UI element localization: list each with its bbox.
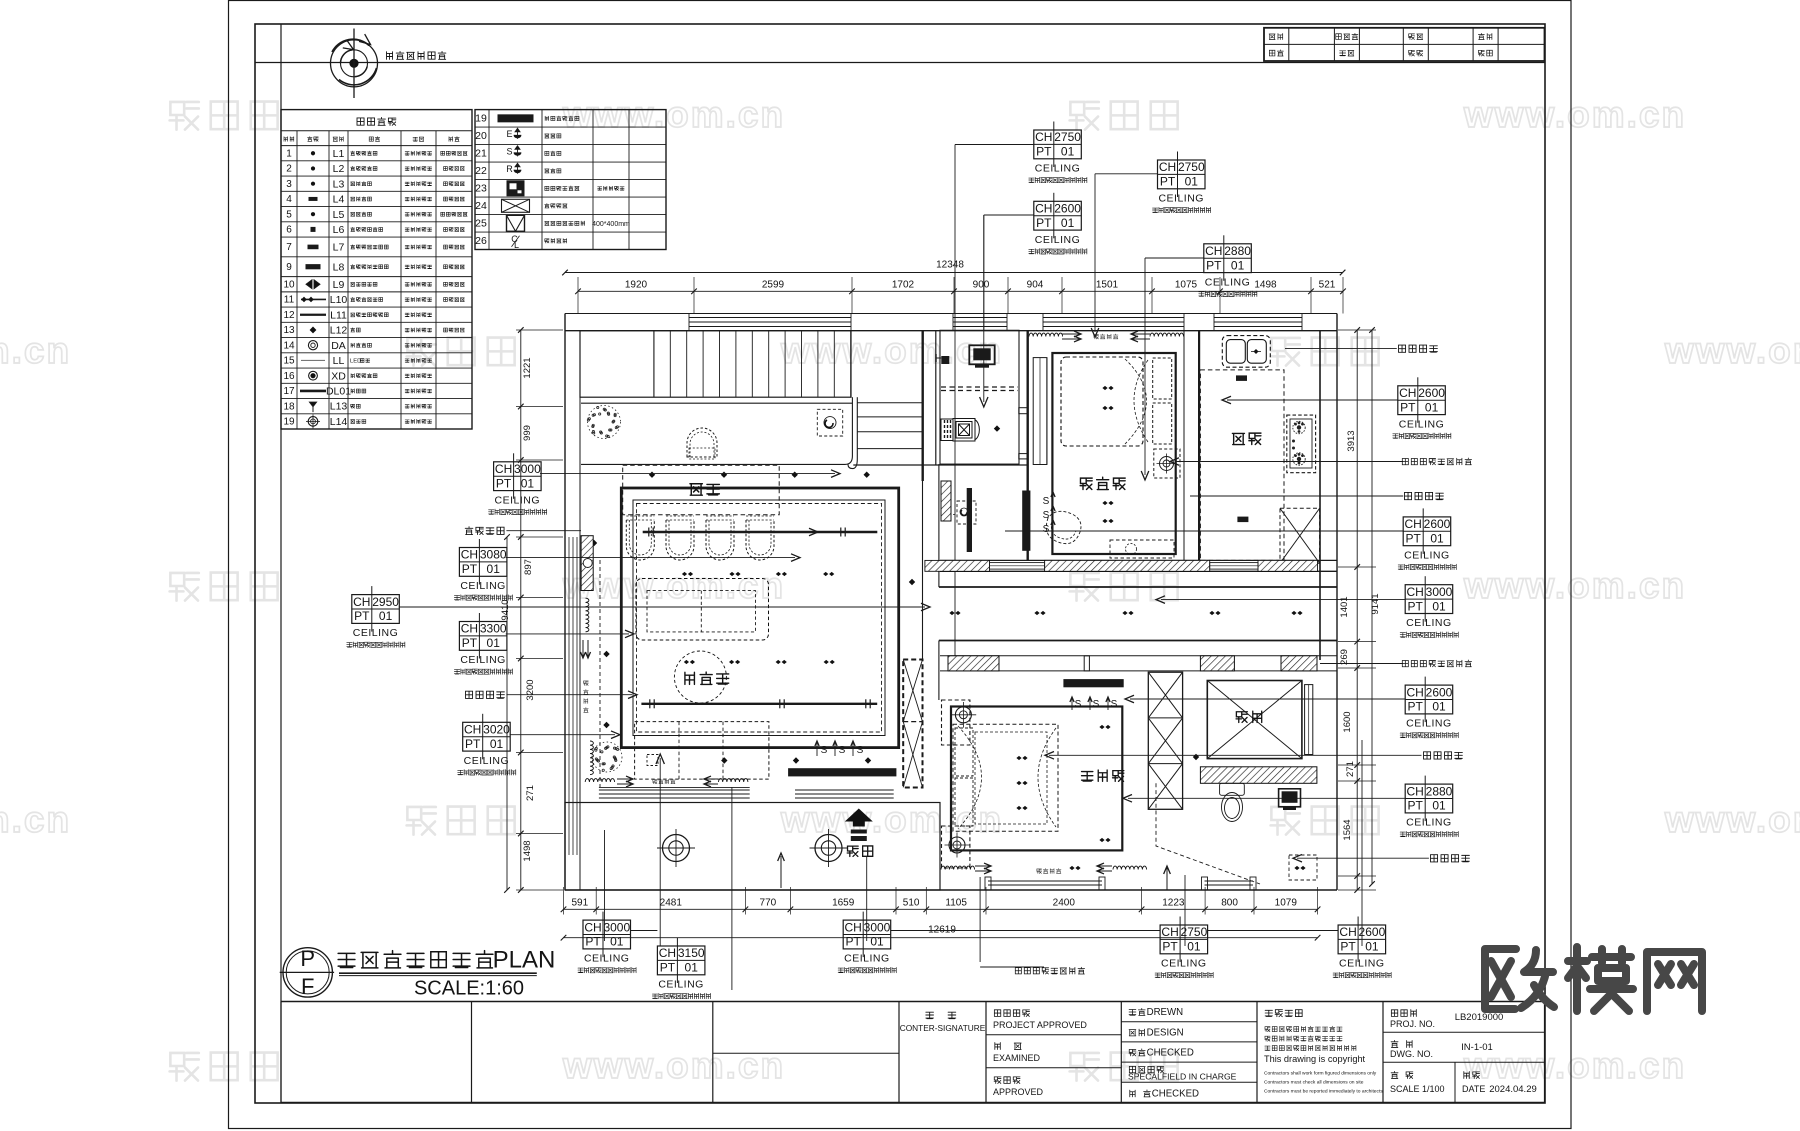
project number cells [1383,1031,1545,1033]
svg-text:01: 01 [1430,532,1444,546]
svg-text:2750: 2750 [1054,130,1081,144]
toilet bottom right [1220,783,1245,821]
svg-text:25: 25 [475,218,487,230]
svg-text:2880: 2880 [1224,244,1251,258]
svg-text:15: 15 [283,356,295,367]
empty cell divider [713,1052,899,1054]
svg-text:CH: CH [1407,585,1424,599]
svg-text:01: 01 [1061,145,1075,159]
svg-text:L9: L9 [333,279,345,291]
bathroom leader lines [954,145,956,657]
svg-text:01: 01 [1185,175,1199,189]
svg-text:L8: L8 [333,261,345,273]
callout CH3080 [459,548,507,577]
bedroom2 black bar [1022,491,1030,551]
svg-text:01: 01 [610,935,624,949]
toilet dashed partition [1156,783,1260,884]
plan outer boundary top [565,313,1337,315]
svg-text:PT: PT [846,935,862,949]
svg-text:PROJ. NO.: PROJ. NO. [1390,1019,1435,1029]
svg-text:L12: L12 [330,325,348,337]
room label parents room [1082,772,1093,782]
ceiling legend table [281,110,472,429]
svg-text:S: S [506,146,512,156]
tea counter band [581,402,852,404]
svg-text:S: S [1043,510,1050,521]
big dark OM watermark [1485,947,1702,1011]
svg-text:SCALE 1/100: SCALE 1/100 [1390,1084,1445,1094]
svg-text:L14: L14 [330,416,348,428]
svg-text:1564: 1564 [1342,819,1353,840]
svg-text:PT: PT [465,737,481,751]
right rooms wall band [940,559,1337,561]
svg-text:L7: L7 [333,242,345,254]
svg-text:CH: CH [1035,202,1052,216]
kitchen walls [1198,331,1200,563]
room label small bedroom [1080,478,1092,489]
top dimension total line [565,272,1343,274]
svg-text:01: 01 [487,636,501,650]
title block [280,1002,282,1103]
leader horizontals from left [506,530,581,532]
svg-text:9410: 9410 [500,599,511,620]
AC vent black bar leisure [788,768,896,776]
sofa dashed top leisure [636,579,769,641]
svg-text:2600: 2600 [1426,685,1453,699]
svg-text:21: 21 [475,148,487,160]
svg-text:3150: 3150 [678,946,705,960]
svg-text:01: 01 [1425,400,1439,414]
room label teahouse [690,484,702,495]
svg-text:1498: 1498 [522,840,533,861]
svg-text:CH: CH [353,595,370,609]
svg-text:1600: 1600 [1342,711,1353,732]
svg-text:CH: CH [1339,925,1356,939]
svg-text:www.om.cn: www.om.cn [562,94,785,135]
svg-text:1920: 1920 [625,280,648,291]
svg-text:CH: CH [495,462,512,476]
svg-text:CH: CH [1405,517,1422,531]
svg-text:CH: CH [845,920,862,934]
svg-text:PLAN: PLAN [493,947,556,974]
callout CH2600 [1338,925,1386,954]
svg-text:19: 19 [283,417,295,428]
elevator [1207,681,1302,759]
svg-text:www.om.cn: www.om.cn [1664,330,1800,371]
svg-text:www.om.cn: www.om.cn [1463,1045,1686,1086]
svg-text:3080: 3080 [480,548,507,562]
left dashed strip [599,560,601,787]
svg-text:20: 20 [475,130,487,142]
svg-text:PT: PT [1160,175,1176,189]
svg-text:LB2019000: LB2019000 [1455,1012,1504,1023]
bedroom2 walls (xiaochuangfang) [1052,353,1175,554]
svg-text:3200: 3200 [525,679,536,700]
kitchen stove [1287,415,1316,473]
svg-text:9141: 9141 [1370,593,1381,614]
tea table thick line [643,531,878,533]
plan top wall [565,330,1337,332]
parents AC vent black [1063,679,1123,687]
svg-text:CONTER-SIGNATURE: CONTER-SIGNATURE [900,1023,986,1033]
svg-text:S: S [821,745,828,756]
legend table rows 19-26 [475,110,666,250]
bedroom2 bed dashed [1061,357,1143,446]
svg-text:PROJECT APPROVED: PROJECT APPROVED [993,1020,1087,1030]
svg-text:2750: 2750 [1178,160,1205,174]
svg-text:01: 01 [1432,700,1446,714]
svg-text:2024.04.29: 2024.04.29 [1489,1084,1537,1095]
svg-text:2599: 2599 [762,280,785,291]
parents lamps [1016,756,1027,760]
kitchen ceiling dashed [1200,370,1284,561]
plant bottom left [592,742,622,772]
svg-text:CEILING: CEILING [1161,958,1207,970]
svg-text:CH: CH [461,548,478,562]
svg-text:22: 22 [475,165,487,177]
svg-text:CHECKED: CHECKED [1147,1048,1194,1059]
svg-text:L1: L1 [333,148,345,160]
svg-text:2400: 2400 [1053,898,1076,909]
svg-text:01: 01 [1061,216,1075,230]
svg-text:www.om.cn: www.om.cn [1463,94,1686,135]
top window bands [689,317,851,319]
svg-text:Contractors must check all dim: Contractors must check all dimensions on… [1264,1080,1364,1086]
svg-text:271: 271 [1345,761,1356,777]
svg-text:CEILING: CEILING [1406,617,1452,629]
svg-text:R: R [506,164,513,174]
sliding door threshold lines [599,789,750,791]
bathroom toilet [941,419,979,442]
left dimension lines [520,330,522,890]
X column between parents and elevator [1148,672,1182,809]
svg-text:LED: LED [350,358,361,364]
svg-text:9: 9 [286,262,292,273]
svg-text:PT: PT [1206,258,1222,272]
bedroom2 top curtain coils [1029,333,1184,336]
svg-text:F: F [301,974,314,999]
corridor X column A [903,660,922,788]
svg-text:6: 6 [286,225,292,236]
svg-text:13: 13 [283,325,295,336]
svg-text:521: 521 [1319,280,1336,291]
black bar pier [967,488,972,552]
svg-text:01: 01 [1187,940,1201,954]
svg-text:19: 19 [475,113,487,125]
svg-text:26: 26 [475,235,487,247]
bedroom2 wardrobe [1033,358,1047,465]
callout CH3300 [459,622,507,651]
svg-text:12619: 12619 [928,925,956,936]
svg-text:PT: PT [496,476,512,490]
bathroom room box [940,330,1019,464]
svg-text:897: 897 [523,559,534,575]
plan title text [338,953,355,967]
svg-text:L11: L11 [330,309,347,321]
svg-text:CH: CH [1399,386,1416,400]
leader verticals from top callouts [983,215,985,330]
plan left wall [564,314,566,891]
svg-text:269: 269 [1339,649,1350,665]
svg-text:CEILING: CEILING [1399,418,1445,430]
drawn column [1121,1021,1257,1023]
svg-text:2750: 2750 [1181,925,1208,939]
tea counter chair [687,428,717,457]
pendant lamp dashed box [817,409,842,436]
callout CH3000 [1405,585,1453,614]
callout CH2600 [1398,386,1446,415]
room label kitchen [1232,433,1244,444]
svg-text:CEILING: CEILING [1406,817,1452,829]
svg-text:L13: L13 [330,401,348,413]
svg-text:800: 800 [1221,898,1238,909]
svg-text:01: 01 [1432,799,1446,813]
S symbols right bottom of leisure [816,742,818,756]
corridor bottom band [940,655,1337,657]
svg-text:3000: 3000 [1426,585,1453,599]
svg-text:999: 999 [522,425,533,441]
svg-text:2880: 2880 [1426,784,1453,798]
svg-text:www.om.cn: www.om.cn [0,799,71,840]
svg-text:12: 12 [283,310,295,321]
svg-text:L2: L2 [333,163,345,175]
svg-text:CH: CH [1407,784,1424,798]
sheet usage text [387,52,393,60]
top dimension chain [578,290,1343,292]
svg-text:SCALE:1:60: SCALE:1:60 [414,978,524,1000]
svg-text:S: S [1093,699,1100,710]
kitchen vents black [1236,375,1247,381]
svg-text:CH: CH [1407,685,1424,699]
svg-text:CH: CH [1161,925,1178,939]
svg-text:Contractors shall work form fi: Contractors shall work form figured dime… [1264,1071,1377,1077]
svg-text:16: 16 [283,371,295,382]
countersignature cell [926,1012,934,1018]
kitchen X cabinet [1280,508,1320,563]
parents room bed dashed [953,724,1058,831]
entry arrow symbol [845,809,873,827]
svg-text:DA: DA [331,340,346,352]
svg-text:2: 2 [286,164,292,175]
svg-text:1702: 1702 [892,280,915,291]
svg-text:S: S [1043,524,1050,535]
svg-text:591: 591 [572,898,589,909]
svg-text:CH: CH [659,946,676,960]
svg-text:CH: CH [584,920,601,934]
stair block [580,331,851,398]
svg-text:3020: 3020 [483,723,510,737]
svg-text:LL: LL [333,355,345,367]
svg-text:14: 14 [283,340,295,351]
svg-text:L6: L6 [333,224,345,236]
right leader labels [1399,345,1406,352]
bottom window bands [988,880,1102,882]
callout CH3020 [463,722,511,751]
svg-text:PT: PT [1036,216,1052,230]
svg-text:DESIGN: DESIGN [1147,1028,1184,1039]
svg-text:24: 24 [475,200,487,212]
svg-text:1498: 1498 [1254,280,1277,291]
svg-text:4: 4 [286,194,292,205]
corridor lamp diamonds [949,611,960,615]
svg-text:01: 01 [1432,599,1446,613]
svg-text:PT: PT [1400,400,1416,414]
electric curtain vertical text [583,681,588,685]
svg-text:CH: CH [1205,244,1222,258]
hatch pier right of tearoom [941,481,951,521]
svg-text:510: 510 [903,898,920,909]
svg-text:P: P [300,946,315,971]
svg-text:CEILING: CEILING [584,953,630,965]
svg-text:1659: 1659 [832,898,855,909]
svg-text:PT: PT [462,636,478,650]
plan right wall [1336,314,1338,891]
svg-text:CEILING: CEILING [1158,193,1204,205]
svg-text:01: 01 [487,562,501,576]
svg-text:7: 7 [286,242,292,253]
svg-text:01: 01 [685,961,699,975]
callout CH2600 [1405,685,1453,714]
leisure track line2 [641,703,877,705]
svg-text:EXAMINED: EXAMINED [993,1053,1041,1063]
svg-text:11: 11 [284,295,295,306]
svg-text:DREWN: DREWN [1147,1007,1184,1018]
svg-text:APPROVED: APPROVED [993,1087,1044,1097]
svg-text:CEILING: CEILING [353,627,399,639]
svg-text:400*400mm: 400*400mm [592,221,630,228]
entry target circles [663,835,690,862]
svg-text:2600: 2600 [1054,202,1081,216]
svg-text:CEILING: CEILING [460,654,506,666]
svg-text:DATE: DATE [1462,1084,1485,1094]
svg-text:CHECKED: CHECKED [1152,1089,1199,1100]
leader horizontals from right [1285,348,1397,350]
svg-text:1079: 1079 [1275,898,1298,909]
callout CH3000 [583,920,631,949]
corridor ceiling lamp [942,700,970,745]
svg-text:2600: 2600 [1418,386,1445,400]
light gray watermarks [170,102,199,130]
svg-text:www.om.cn: www.om.cn [1664,799,1800,840]
callout CH3000 [494,462,541,491]
bathroom top walls [922,331,924,481]
svg-text:PT: PT [585,935,601,949]
bedroom2 lamp diamonds [1102,386,1113,390]
svg-text:3000: 3000 [603,920,630,934]
svg-text:CEILING: CEILING [1406,718,1452,730]
svg-text:3: 3 [286,179,292,190]
callout CH2880 [1405,784,1453,813]
bottom furniture dashed [635,722,769,780]
svg-text:PT: PT [1340,940,1356,954]
svg-text:L3: L3 [333,178,345,190]
svg-text:2600: 2600 [1359,925,1386,939]
svg-text:S: S [1075,699,1082,710]
svg-text:This drawing is copyright: This drawing is copyright [1264,1054,1366,1064]
left window multiline [568,537,570,855]
tea room thick walls [621,488,898,748]
hatched band below elevator [1200,767,1317,784]
svg-text:12348: 12348 [936,260,964,271]
porch entry area [565,803,940,891]
svg-text:900: 900 [973,280,990,291]
svg-text:3000: 3000 [514,462,541,476]
svg-text:CH: CH [1035,130,1052,144]
kitchen sink [1222,336,1270,368]
svg-text:CEILING: CEILING [460,580,506,592]
steps to corridor [857,402,923,404]
svg-text:PT: PT [462,562,478,576]
bedroom2 ceiling lamp box [1154,449,1180,478]
svg-text:1501: 1501 [1096,280,1119,291]
svg-text:DL01: DL01 [326,386,351,398]
svg-text:2600: 2600 [1424,517,1451,531]
svg-text:5: 5 [286,209,292,220]
parents room walls [951,707,1122,851]
svg-text:CH: CH [461,622,478,636]
lamp diamonds below leisure [721,757,727,763]
left wall zone details [581,536,593,591]
svg-text:S: S [1043,496,1050,507]
corridor wall stub [922,481,924,660]
svg-text:IN-1-01: IN-1-01 [1461,1042,1493,1053]
svg-text:1401: 1401 [1339,596,1350,617]
svg-text:3913: 3913 [1346,430,1357,451]
svg-text:770: 770 [760,898,777,909]
svg-text:L4: L4 [333,194,345,206]
leisure area dashed circle label [674,651,726,703]
svg-text:S: S [839,745,846,756]
discipline sign table [1264,28,1545,61]
tea room label zone lamps row [649,472,655,478]
sheet inner frame [255,24,1545,1103]
left curtain coil vertical [586,598,589,632]
svg-text:www.om.cn: www.om.cn [562,565,785,606]
binding strip line [280,24,282,1103]
callout CH2750 [1034,130,1082,159]
svg-text:PT: PT [1408,599,1424,613]
svg-text:2481: 2481 [660,898,683,909]
svg-text:1075: 1075 [1175,280,1198,291]
svg-text:10: 10 [283,279,295,290]
top band line [255,62,1545,64]
bathroom washstand monitor [969,345,994,364]
room label elevator [1236,712,1247,723]
left leader labels [465,527,473,535]
svg-text:www.om.cn: www.om.cn [562,1045,785,1086]
plan title circle P/F [283,948,332,997]
callout CH2880 [1204,244,1252,273]
callout CH2750 [1158,160,1206,189]
callout CH2600 [1034,201,1082,230]
stair landing divider [653,331,655,398]
copyright cell [1265,1010,1272,1016]
tea room chairs [626,520,654,560]
svg-text:1105: 1105 [945,898,967,909]
leader arrow into tearoom top [540,473,835,475]
svg-text:L: L [514,240,519,250]
svg-text:CEILING: CEILING [658,979,704,991]
bottom leaders horizontal [631,930,657,932]
svg-text:E: E [506,129,512,139]
svg-text:PT: PT [660,961,676,975]
svg-text:L5: L5 [333,209,345,221]
svg-text:271: 271 [525,785,536,801]
bottom total dimension [564,937,1318,939]
svg-text:904: 904 [1027,280,1044,291]
svg-text:PT: PT [1162,940,1178,954]
right dimension lines [1356,330,1358,890]
